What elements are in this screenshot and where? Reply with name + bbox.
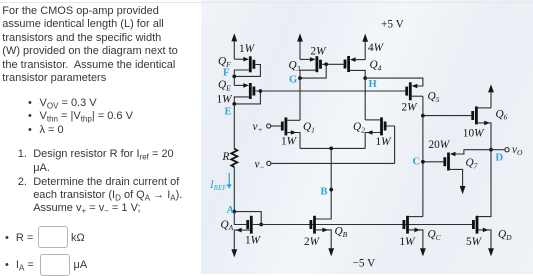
wire R to node A xyxy=(233,167,235,212)
transistor QA xyxy=(234,216,251,250)
svg-text:2W: 2W xyxy=(304,236,321,248)
node A xyxy=(232,210,236,214)
junction gate line xyxy=(324,62,328,66)
svg-text:10W: 10W xyxy=(463,128,485,140)
svg-text:QB: QB xyxy=(335,226,348,239)
wire D to Q7 source xyxy=(455,150,491,154)
svg-text:1W: 1W xyxy=(245,235,262,247)
svg-text:E: E xyxy=(225,106,232,117)
svg-text:Q3: Q3 xyxy=(289,60,301,73)
svg-text:QA: QA xyxy=(221,219,234,232)
svg-text:QC: QC xyxy=(428,229,442,242)
svg-text:+5 V: +5 V xyxy=(381,18,405,30)
svg-text:G: G xyxy=(289,74,297,85)
node F xyxy=(232,75,236,79)
terminal vO xyxy=(505,148,509,152)
wire A diode loop to bias line xyxy=(234,212,261,225)
wire G down to Q1 drain xyxy=(299,78,301,120)
svg-text:C: C xyxy=(413,157,421,168)
transistor QE xyxy=(234,83,260,104)
svg-text:QD: QD xyxy=(498,229,512,242)
junction Q6 gate xyxy=(421,114,425,118)
svg-text:Q4: Q4 xyxy=(370,59,382,72)
arrow down QC source xyxy=(420,248,426,256)
wire tail down to QB xyxy=(316,148,331,219)
node B xyxy=(329,188,333,192)
arrow up Q6 supply xyxy=(488,84,494,92)
wire: Q4 supply stem xyxy=(364,41,366,59)
svg-text:1W: 1W xyxy=(376,136,393,148)
node C xyxy=(421,160,425,164)
transistor QB xyxy=(311,216,331,249)
transistor Q3 xyxy=(300,56,326,78)
svg-text:1W: 1W xyxy=(281,135,298,147)
tail wire Q1 Q2 sources xyxy=(300,147,365,149)
arrow up Q3 supply xyxy=(297,33,303,41)
wire H down to Q2 drain xyxy=(364,78,366,120)
arrow down Q7 drain xyxy=(460,186,466,194)
wire Q6 drain supply stem xyxy=(490,92,492,108)
svg-text:Q1: Q1 xyxy=(303,121,315,134)
wire gate line drop to G xyxy=(300,64,326,78)
numbered list xyxy=(18,148,27,161)
wire F to QE xyxy=(233,76,235,85)
transistor Q4 xyxy=(345,56,365,78)
wire A down to QA gate xyxy=(234,212,246,225)
svg-text:v+: v+ xyxy=(253,121,263,134)
transistor Q6 xyxy=(473,106,491,149)
problem statement xyxy=(2,5,177,85)
terminal v- xyxy=(271,162,395,164)
svg-text:4W: 4W xyxy=(368,42,385,54)
node G xyxy=(298,76,302,80)
svg-text:Q7: Q7 xyxy=(466,157,478,170)
wire E rail down to R xyxy=(233,104,235,149)
bullet list xyxy=(28,97,32,110)
svg-text:Q6: Q6 xyxy=(496,108,508,121)
wire H to Q5 source xyxy=(365,78,423,86)
arrow up QF supply xyxy=(231,33,237,41)
svg-text:A: A xyxy=(227,205,235,216)
svg-text:1W: 1W xyxy=(400,236,417,248)
node D xyxy=(489,148,493,152)
svg-text:Q2: Q2 xyxy=(353,121,365,134)
svg-text:v−: v− xyxy=(255,158,265,171)
current IREF arrow xyxy=(228,173,230,185)
wire to Q6 gate xyxy=(423,115,471,117)
svg-text:vO: vO xyxy=(512,144,523,157)
transistor Q5 xyxy=(407,82,423,100)
transistor Q1 xyxy=(271,117,300,148)
transistor QD xyxy=(473,216,491,249)
transistor Q2 xyxy=(365,117,394,163)
node H xyxy=(363,76,367,80)
transistor Q7 xyxy=(423,152,463,186)
svg-text:Q5: Q5 xyxy=(428,91,440,104)
resistor R xyxy=(231,149,237,167)
svg-text:B: B xyxy=(321,186,328,197)
junction QE wrap xyxy=(232,102,236,106)
svg-text:−5 V: −5 V xyxy=(353,258,377,270)
svg-text:1W: 1W xyxy=(217,93,234,105)
svg-text:1W: 1W xyxy=(239,43,256,55)
arrow down QB source xyxy=(328,248,334,256)
junction QE gate / bias line xyxy=(259,89,263,93)
arrow down QA source xyxy=(231,249,237,257)
svg-text:2W: 2W xyxy=(311,46,328,58)
arrow down QD source xyxy=(488,248,494,256)
bias line QA to QD gates xyxy=(253,224,472,226)
arrow up Q4 supply xyxy=(362,34,368,42)
answer row IA xyxy=(5,259,9,272)
svg-text:F: F xyxy=(223,67,229,78)
wire D down to QD drain xyxy=(478,150,491,217)
transistor QC xyxy=(404,216,423,249)
svg-text:2W: 2W xyxy=(402,102,419,114)
svg-text:QE: QE xyxy=(218,79,231,92)
junction tail xyxy=(329,147,333,151)
svg-text:5W: 5W xyxy=(466,236,483,248)
wire: Q3 supply stem xyxy=(299,41,301,59)
wire E bias line to Q5 gate xyxy=(260,90,405,92)
svg-text:20W: 20W xyxy=(429,139,451,151)
svg-text:IREF: IREF xyxy=(209,179,227,192)
junction QA drain xyxy=(259,223,263,227)
wire Q5 drain down C rail xyxy=(422,96,424,216)
svg-text:H: H xyxy=(369,79,377,90)
answer row R xyxy=(5,232,9,245)
svg-text:D: D xyxy=(496,152,504,163)
svg-text:R: R xyxy=(222,151,230,163)
wire Q3 gate to Q4 gate xyxy=(326,63,343,65)
wire D to output xyxy=(491,149,505,151)
transistor QF xyxy=(234,56,260,76)
wire: QF supply stem xyxy=(233,41,235,59)
